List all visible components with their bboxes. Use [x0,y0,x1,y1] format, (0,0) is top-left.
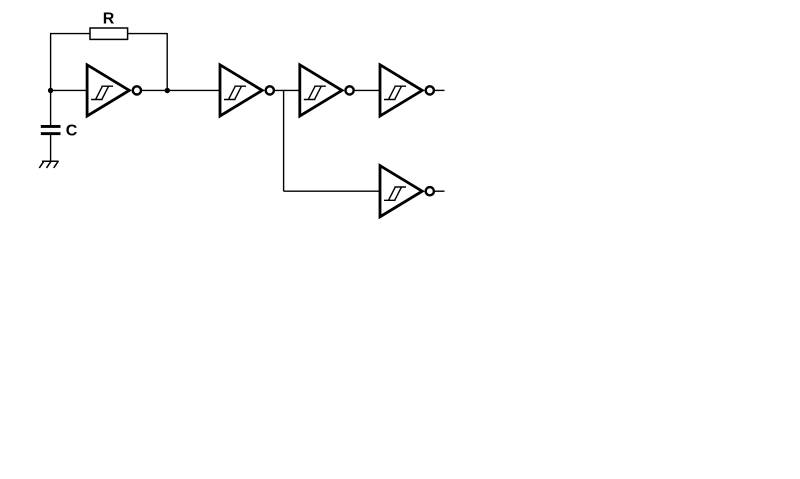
schmitt-trigger inverter U2 [220,65,274,116]
wire: left rail top (cap node up to feedback) [50,34,52,125]
wire: U3 output to U4 input [354,89,381,91]
svg-text:C: C [66,122,78,139]
wire: branch vertical to U5 [283,90,285,191]
schmitt-trigger inverter U3 [300,65,354,116]
node B (U1 output / feedback junction) [165,88,170,93]
wire: U4 output stub [434,89,445,91]
wire: U1 output to U2 input [141,89,221,91]
schmitt-trigger inverter U1 [87,65,141,116]
resistor R [90,28,128,39]
wire: top feedback right segment [128,33,168,35]
wire: capacitor to ground [50,135,52,161]
node A (cap / input junction) [48,88,53,93]
wire: right rail from resistor down to U1 output [166,33,168,90]
schmitt-trigger inverter U4 [380,65,434,116]
wire: U5 output stub [434,190,445,192]
capacitor C [41,125,61,135]
wire: branch horizontal to U5 input [284,190,381,192]
wire: top feedback left segment [50,33,90,35]
wire: U2 output to U3 input [274,89,300,91]
ground [39,161,58,168]
schmitt-trigger inverter U5 [380,166,434,217]
svg-text:R: R [103,11,115,28]
wire: U1 input [51,89,88,91]
